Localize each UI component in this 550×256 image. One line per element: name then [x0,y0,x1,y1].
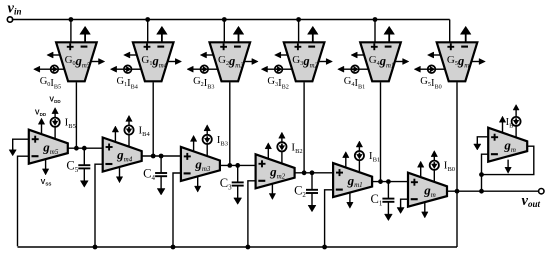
label G3gm2 of U4 [292,54,318,69]
wire gm5 + to ground [13,139,29,149]
op-amp A0 (gm) body [408,173,447,207]
vss arrow A0 [422,202,428,218]
arrow out-right U4 [319,59,333,65]
wire U2 output drop [152,82,154,156]
label G1gm4 of U2 [141,54,167,69]
svg-text:IB3: IB3 [217,134,228,148]
op-amp U5 (G4gm1) body [360,42,401,81]
wire OTA U1 + input stub [70,20,72,44]
wire OTA U6 + input stub [449,20,451,44]
op-amp A3 (gm3) body [181,147,220,181]
junction node 0 a [455,189,460,194]
label IB2 [291,141,302,155]
pin + of A4 [106,144,113,151]
vdd arrow A4 [112,126,118,142]
svg-text:G4IB1: G4IB1 [344,76,365,90]
pin − of A2 [258,180,265,182]
pin + of A2 [259,160,266,167]
op-amp U3 (G2gm3) body [210,42,251,81]
label C5 [66,159,78,175]
arrow out-right U2 [168,59,182,65]
label gm of A6 [503,137,516,153]
label C4 [143,167,155,183]
label G2IB3 [193,76,214,90]
current source IB1 circle [355,141,364,173]
svg-text:G1IB4: G1IB4 [116,76,137,90]
label VSS at gm5 [41,179,52,187]
op-amp A4 (gm4) body [103,138,142,172]
pin + of U2 [144,43,151,50]
wire gm2 − to bus [248,181,256,247]
capacitor C2 [306,173,318,212]
svg-text:G5IB0: G5IB0 [420,76,441,90]
wire gm3 − to bus [173,173,181,246]
junction node 0 b [479,189,484,194]
op-amp A1 (gm1) body [333,163,372,197]
pin + of A0 [411,179,418,186]
wire node 0 [447,190,539,192]
pin − of U3 [234,46,241,48]
wire gm5 − to bus [18,156,29,246]
wire OTA U5 + input stub [374,20,376,44]
arrow out-right U3 [244,59,258,65]
pin − of U2 [157,46,164,48]
svg-text:vin: vin [8,0,22,16]
pin + of A5 [32,136,39,143]
pin + of A1 [336,169,343,176]
op-amp U1 (G0gm5) body [56,42,97,81]
label gm4 of A4 [116,147,133,163]
label G4gm1 of U5 [369,54,395,69]
wire gm − to ground [401,199,408,207]
label IB0 [444,160,455,174]
label G4IB1 [344,76,365,90]
arrow out-right U6 [471,59,485,65]
current source G5IB0 circle [414,65,445,73]
current source IB5 circle [51,108,60,140]
pin − of A4 [105,163,112,165]
arrow out-left U1 [47,52,60,58]
wire U3 output drop [229,82,231,165]
vdd arrow OTA U5 [384,26,395,42]
label IB1 [369,150,380,164]
junction bus gm3 [171,245,176,250]
svg-text:C1: C1 [370,192,382,208]
label IB4 [139,125,151,139]
ground arrow gm − [397,207,404,214]
pin − of U4 [308,46,315,48]
current source G4IB1 circle [338,65,369,73]
capacitor C5 [78,148,90,187]
svg-text:IB4: IB4 [139,125,151,139]
current source IB2 circle [277,132,286,164]
svg-text:C5: C5 [66,159,78,175]
node vin tap 2 [145,17,150,22]
svg-text:C3: C3 [220,176,232,192]
arrow out-right U5 [395,59,409,65]
label gm3 of A3 [194,157,211,173]
wire node 4 [142,155,181,157]
arrow out-left U2 [124,52,137,58]
current source IB buffer circle [512,105,521,138]
arrow out-left U6 [428,52,441,58]
op-amp A6 (gm buffer) body [488,128,527,162]
junction node 3 b [235,163,240,168]
pin − of A0 [411,198,418,200]
current source IB3 circle [203,125,212,157]
svg-text:IB5: IB5 [65,117,76,131]
label G5IB0 [420,76,441,90]
label G2gm3 of U3 [218,54,244,69]
vdd arrow A1 [343,152,349,168]
pin + of U3 [220,43,227,50]
wire gm1 − to bus [325,190,334,247]
arrow out-left U5 [351,52,364,58]
vdd arrow A0 [418,161,424,177]
wire OTA U3 + input stub [223,20,225,44]
wire OTA U4 + input stub [298,20,300,44]
vdd arrow OTA U6 [460,26,471,42]
wire vin rail [12,19,450,21]
svg-text:IB1: IB1 [369,150,380,164]
vss arrow A3 [195,177,201,193]
wire node 3 [220,164,256,166]
junction node 4 a [151,154,156,159]
wire U4 output drop [303,82,305,173]
label gm1 of A1 [347,173,363,189]
vss arrow A1 [347,193,353,209]
label gm of A0 [423,182,436,198]
terminal vin [7,0,21,22]
terminal vout [522,189,545,209]
pin + of A6 [491,134,498,141]
node vin tap 4 [296,17,301,22]
capacitor C1 [382,182,394,221]
label G3IB2 [267,76,288,90]
wire node 5 [68,147,103,149]
arrow out-right U1 [91,59,105,65]
pin − of A6 [491,153,498,155]
current source G1IB4 circle [110,65,141,73]
vdd arrow OTA U4 [308,26,319,42]
wire feedback bus [18,246,458,248]
wire U1 output drop [75,82,77,148]
junction bus gm4 [93,245,98,250]
wire gm4 − to bus [95,164,103,246]
label IB3 [217,134,228,148]
junction node 3 a [227,163,232,168]
pin − of U6 [461,46,468,48]
wire node 1 [372,181,408,183]
pin + of U4 [295,43,302,50]
capacitor C4 [155,156,167,195]
node vin tap 3 [222,17,227,22]
vss arrow A5 [42,159,48,175]
svg-text:C2: C2 [294,183,306,199]
wire OTA U2 + input stub [147,20,149,44]
op-amp U4 (G3gm2) body [284,42,325,81]
pin − of U5 [385,46,392,48]
arrow out-left U4 [275,52,288,58]
svg-text:G2IB3: G2IB3 [193,76,214,90]
vss arrow A2 [269,184,275,200]
label C2 [294,183,306,199]
junction bus gm2 [246,245,251,250]
vdd arrow A5 [38,118,44,134]
node vin tap 5 [373,17,378,22]
wire A6 output feedback loop [482,146,534,174]
vdd arrow OTA U3 [233,26,244,42]
svg-text:VDD: VDD [49,97,61,105]
junction node 4 b [159,154,164,159]
op-amp U6 (G5gm) body [437,42,478,81]
op-amp A5 (gm5) body [29,130,68,164]
label VDD at IB5 [49,97,61,105]
wire U5 output drop [380,82,382,181]
label G5gm of U6 [447,54,469,69]
current source IB4 circle [124,115,133,146]
label gm2 of A2 [269,164,286,180]
pin + of U5 [371,43,378,50]
current source G3IB2 circle [261,65,292,73]
current source G2IB3 circle [187,65,218,73]
svg-text:G0IB5: G0IB5 [40,76,61,90]
wire node 2 [295,172,334,174]
svg-text:VSS: VSS [41,179,52,187]
ground arrow A6 + [474,143,481,150]
label C1 [370,192,382,208]
junction node 1 a [378,179,383,184]
label G0IB5 [40,76,61,90]
node vin tap 1 [69,17,74,22]
capacitor C3 [232,165,244,204]
svg-text:C4: C4 [143,167,155,183]
vdd arrow OTA U1 [80,26,91,42]
label VDD at gm5 body [35,110,47,118]
wire U6 output drop [456,82,458,247]
current source G0IB5 circle [34,65,65,73]
pin − of U1 [81,46,88,48]
label IB buffer [506,117,515,130]
svg-text:IB0: IB0 [444,160,455,174]
wire A6 − feedback riser [482,154,489,191]
vss arrow A6 [505,160,511,174]
arrow out-left U3 [200,52,213,58]
junction A6 feedback [479,172,484,177]
pin + of U1 [67,43,74,50]
pin − of A3 [184,172,191,174]
op-amp U2 (G1gm4) body [133,42,174,81]
label G0gm5 of U1 [65,54,91,69]
svg-text:G3IB2: G3IB2 [267,76,288,90]
ground arrow gm5 + [9,149,16,156]
current source IB0 circle [430,151,439,183]
junction node 5 b [82,146,87,151]
pin − of A1 [336,189,343,191]
vdd arrow A2 [265,143,271,159]
vdd arrow OTA U2 [157,26,168,42]
junction node 5 a [74,146,79,151]
svg-text:VDD: VDD [35,110,47,118]
label G1IB4 [116,76,137,90]
label C3 [220,176,232,192]
pin + of U6 [447,43,454,50]
svg-text:vout: vout [522,193,541,209]
label gm5 of A5 [42,139,59,155]
junction bus gm1 [322,245,327,250]
pin + of A3 [184,153,191,160]
junction node 2 b [310,170,315,175]
junction node 1 b [386,179,391,184]
svg-text:IB2: IB2 [291,141,302,155]
label IB5 [65,117,76,131]
vdd arrow A3 [190,135,196,151]
wire A6 + to ground [477,137,488,144]
pin − of A5 [32,155,39,157]
vdd arrow A6 [499,116,505,132]
vss arrow A4 [116,167,122,183]
junction node 2 a [302,170,307,175]
op-amp A2 (gm2) body [256,154,295,188]
